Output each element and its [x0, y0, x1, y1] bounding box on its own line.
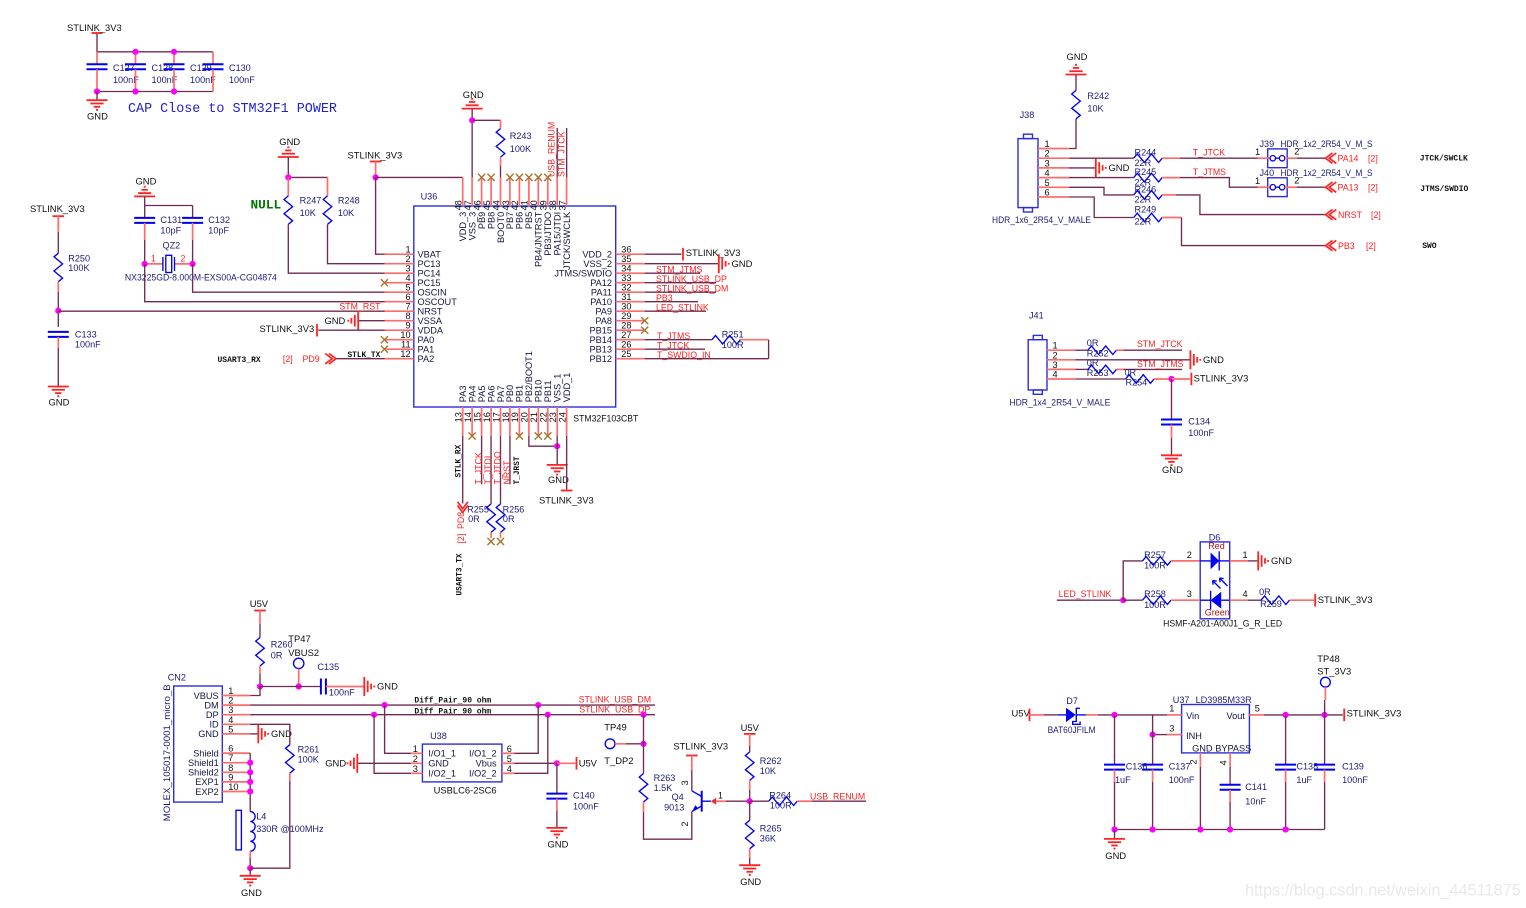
- svg-text:VSS_3: VSS_3: [467, 212, 477, 241]
- pin 38 PA15/JTDI: [548, 177, 563, 255]
- wire U38 pin5 Vbus to U5V: [514, 762, 557, 764]
- resistor R248 10K: [323, 177, 359, 224]
- svg-text:R253: R253: [1087, 368, 1109, 378]
- svg-text:VDD_1: VDD_1: [562, 373, 572, 403]
- pin 10 PA0: [385, 330, 434, 345]
- net LED_STLINK (pin30): [645, 302, 709, 312]
- svg-text:5: 5: [507, 754, 512, 764]
- svg-text:0R: 0R: [1259, 587, 1271, 597]
- svg-text:STLINK_3V3: STLINK_3V3: [686, 247, 741, 258]
- svg-text:PB2/BOOT1: PB2/BOOT1: [524, 351, 534, 402]
- svg-text:6: 6: [228, 744, 233, 754]
- net STLINK_USB_DM (pin32): [645, 283, 729, 293]
- svg-text:R245: R245: [1135, 167, 1157, 177]
- node pin20/pin23: [554, 443, 560, 449]
- wire DM to U38 pin6: [514, 705, 538, 753]
- svg-text:41: 41: [520, 200, 530, 210]
- svg-text:[2]: [2]: [1368, 182, 1378, 192]
- no-connect pin 40: [535, 174, 542, 181]
- pin 2 GND (bottom): [1189, 753, 1201, 830]
- svg-text:39: 39: [539, 200, 549, 210]
- svg-text:GND: GND: [136, 175, 157, 186]
- capacitor C137 100nF: [1142, 762, 1195, 830]
- wire STLINK_3V3 to cap bus: [96, 33, 98, 52]
- pin 3 I/O2_1: [411, 764, 456, 779]
- svg-text:C133: C133: [75, 330, 97, 340]
- svg-text:6: 6: [1045, 188, 1050, 198]
- ground (U36 VSSA pin8): [324, 311, 384, 330]
- svg-text:17: 17: [491, 412, 501, 422]
- svg-text:3: 3: [1187, 589, 1192, 599]
- svg-text:R259: R259: [1260, 599, 1282, 609]
- svg-text:J41: J41: [1029, 311, 1044, 321]
- svg-text:VDD_2: VDD_2: [582, 250, 612, 260]
- svg-text:GND: GND: [1203, 354, 1224, 365]
- wire DM to U38 pin1: [385, 705, 411, 753]
- svg-text:PA14: PA14: [1338, 153, 1359, 163]
- svg-text:9: 9: [228, 772, 233, 782]
- resistor R257 100R: [1143, 550, 1201, 571]
- ground (R265): [739, 865, 761, 887]
- wire regulator ground rail: [1115, 829, 1325, 831]
- LED D6 HSMF-A201 dual: [1200, 533, 1230, 619]
- node D7/C136: [1111, 712, 1117, 718]
- pin 39 PB3/JTDO: [539, 177, 554, 255]
- svg-text:10: 10: [400, 330, 410, 340]
- power flag STLINK_3V3 (cap bank): [30, 203, 85, 227]
- capacitor C140 100nF: [546, 763, 599, 828]
- pin 4 I/O2_2: [469, 764, 514, 779]
- svg-text:STLINK_3V3: STLINK_3V3: [1347, 707, 1402, 718]
- svg-text:GND: GND: [87, 111, 108, 122]
- svg-text:10pF: 10pF: [160, 225, 181, 235]
- svg-text:C134: C134: [1188, 416, 1210, 426]
- svg-text:1: 1: [228, 686, 233, 696]
- no-connect pin 39: [544, 174, 551, 181]
- svg-text:T_JTCK: T_JTCK: [473, 452, 483, 484]
- power flag STLINK_3V3 (U36 VDD_1 pin24): [539, 436, 594, 505]
- pin 2 PC13: [385, 254, 441, 269]
- svg-text:2: 2: [1053, 350, 1058, 360]
- svg-text:STLK_TX: STLK_TX: [348, 352, 381, 360]
- svg-text:4: 4: [1243, 589, 1248, 599]
- svg-text:9013: 9013: [664, 802, 684, 812]
- svg-text:DM: DM: [204, 700, 218, 710]
- resistor R254 0R: [1075, 367, 1171, 387]
- svg-text:100K: 100K: [510, 144, 531, 154]
- node crystal pin1: [142, 261, 148, 267]
- svg-text:STM_JTMS: STM_JTMS: [1137, 359, 1184, 369]
- svg-text:10nF: 10nF: [1245, 796, 1266, 806]
- svg-text:12: 12: [400, 349, 410, 359]
- svg-text:VBUS: VBUS: [194, 691, 219, 701]
- capacitor C135 100nF (horizontal): [317, 662, 363, 697]
- svg-text:PA11: PA11: [591, 288, 612, 298]
- test point TP47 VBUS2: [288, 633, 319, 687]
- pin 4 PC15: [385, 273, 441, 288]
- connector J39 HDR_1x2_2R54_V_M_S: [1255, 139, 1373, 168]
- svg-text:VBAT: VBAT: [418, 250, 442, 260]
- svg-text:32: 32: [621, 283, 631, 293]
- svg-text:R265: R265: [760, 824, 782, 834]
- wire DP to U38 pin3: [374, 715, 411, 774]
- net T_JTMS (pin27) + resistor R251 100R: [645, 329, 769, 350]
- svg-text:GND: GND: [279, 136, 300, 147]
- pin 20 PB2/BOOT1: [520, 351, 535, 436]
- svg-text:R243: R243: [510, 131, 532, 141]
- svg-text:PB3/JTDO: PB3/JTDO: [543, 212, 553, 256]
- svg-text:1: 1: [405, 245, 410, 255]
- svg-text:GND: GND: [1192, 743, 1213, 753]
- svg-text:[2]: [2]: [283, 354, 293, 364]
- svg-text:GND: GND: [49, 397, 70, 408]
- svg-text:25: 25: [621, 349, 631, 359]
- pin 6 OSCOUT: [385, 292, 457, 307]
- net STLINK_USB_DP (pin33): [645, 274, 727, 284]
- node Vbus/C140: [554, 760, 560, 766]
- svg-text:36: 36: [621, 245, 631, 255]
- svg-text:PC15: PC15: [418, 278, 441, 288]
- ground (U36 VSS_2 pin35): [645, 254, 753, 273]
- net label USB_RENUM (rotated): [547, 122, 558, 178]
- pin 18 PB0: [501, 385, 515, 436]
- capacitor C130: [203, 52, 256, 92]
- svg-text:OSCIN: OSCIN: [418, 288, 447, 298]
- svg-text:3: 3: [1053, 360, 1058, 370]
- node Vout/C138: [1283, 712, 1289, 718]
- svg-text:T_JTDO: T_JTDO: [492, 451, 502, 484]
- pin 9 EXP1: [195, 772, 250, 787]
- svg-text:27: 27: [621, 330, 631, 340]
- net NRST (pin18, rotated): [502, 436, 512, 485]
- pin 47 VSS_3: [463, 177, 478, 240]
- svg-text:0R: 0R: [503, 514, 515, 524]
- svg-text:Green: Green: [1205, 607, 1230, 617]
- svg-text:44: 44: [491, 200, 501, 210]
- pin 21 PB10: [529, 380, 544, 436]
- svg-text:Vin: Vin: [1186, 711, 1199, 721]
- svg-text:4: 4: [1053, 370, 1058, 380]
- crystal QZ2: [125, 240, 277, 282]
- svg-text:QZ2: QZ2: [163, 240, 181, 250]
- svg-text:LD3985M33R: LD3985M33R: [1196, 695, 1253, 705]
- svg-text:100nF: 100nF: [1342, 775, 1368, 785]
- resistor R244 22R + net T_JTCK: [1069, 147, 1258, 168]
- svg-text:1: 1: [1255, 176, 1260, 186]
- svg-text:PA10: PA10: [590, 297, 612, 307]
- svg-text:JTMS/SWDIO: JTMS/SWDIO: [1420, 185, 1468, 194]
- svg-text:7: 7: [228, 753, 233, 763]
- power flag STLINK_3V3 (R259): [1315, 594, 1372, 607]
- svg-text:TP47: TP47: [288, 633, 310, 644]
- connector J40 HDR_1x2_2R54_V_M_S: [1255, 168, 1373, 196]
- wire R243 to BOOT0 pin44: [500, 157, 502, 166]
- resistor R264 100R + net USB_RENUM: [750, 790, 866, 810]
- svg-text:1: 1: [1243, 550, 1248, 560]
- capacitor C134 100nF: [1161, 379, 1215, 455]
- red LED (pins 2-1): [1200, 551, 1230, 570]
- svg-text:PD8: PD8: [456, 512, 466, 529]
- node DP tap: [640, 712, 646, 718]
- svg-text:C140: C140: [573, 790, 595, 800]
- pin 15 PA5: [472, 386, 487, 436]
- pin 5 Vout: [1249, 704, 1342, 715]
- wire R247 to U36 pin3: [288, 224, 385, 273]
- svg-text:I/O2_1: I/O2_1: [428, 769, 456, 779]
- svg-text:10K: 10K: [300, 208, 316, 218]
- svg-text:LED_STLINK: LED_STLINK: [1059, 589, 1112, 599]
- svg-text:T_JTMS: T_JTMS: [1193, 167, 1226, 177]
- port PA14 [2]: [1297, 153, 1378, 163]
- connector J38 HDR_1x6_2R54_V_MALE: [992, 110, 1091, 225]
- wire DM line: [250, 704, 655, 706]
- no-connect pin 43: [506, 174, 513, 181]
- svg-text:2: 2: [1294, 147, 1299, 157]
- pin 1 I/O1_1: [411, 744, 456, 759]
- svg-text:R262: R262: [760, 756, 782, 766]
- svg-text:HDR_1x4_2R54_V_MALE: HDR_1x4_2R54_V_MALE: [1009, 397, 1110, 407]
- svg-text:0R: 0R: [271, 651, 283, 661]
- svg-text:VDDA: VDDA: [418, 326, 444, 336]
- svg-text:4: 4: [228, 715, 233, 725]
- svg-text:[2]: [2]: [456, 534, 466, 544]
- svg-text:NULL: NULL: [251, 198, 282, 213]
- svg-text:Vbus: Vbus: [476, 759, 497, 769]
- svg-text:PA8: PA8: [595, 316, 612, 326]
- svg-text:STLINK_3V3: STLINK_3V3: [1194, 373, 1249, 384]
- pin 5 GND: [198, 724, 250, 739]
- pin 3 J41: [1047, 360, 1075, 370]
- svg-text:C130: C130: [229, 63, 251, 73]
- pin 12 PA2: [385, 349, 434, 364]
- pin 3 INH: [1153, 723, 1182, 734]
- ground (C133): [48, 387, 70, 408]
- svg-text:22R: 22R: [1135, 217, 1152, 227]
- pin 4 J38: [1038, 168, 1069, 178]
- node STLINK_3V3 rail: [373, 174, 379, 180]
- svg-text:PA4: PA4: [467, 386, 477, 403]
- power flag U5V (Vbus): [557, 757, 598, 770]
- svg-text:2: 2: [1045, 149, 1050, 159]
- power flag STLINK_3V3 (R250 column): [57, 217, 59, 253]
- test point TP48 ST_3V3: [1317, 653, 1351, 715]
- port [2] PD8 (pin13, rotated): [456, 502, 468, 596]
- resistor R262 10K: [745, 752, 781, 801]
- svg-text:Shield1: Shield1: [188, 758, 219, 768]
- port PB3 [2]: [1326, 240, 1376, 250]
- no-connect pin 19: [516, 432, 523, 439]
- svg-text:GND: GND: [548, 839, 569, 850]
- node DP to pin3: [371, 712, 377, 718]
- svg-text:C135: C135: [317, 662, 339, 672]
- svg-text:CAP Close to STM32F1 POWER: CAP Close to STM32F1 POWER: [128, 102, 337, 117]
- svg-text:USBLC6-2SC6: USBLC6-2SC6: [434, 785, 497, 796]
- svg-text:PB3: PB3: [1338, 241, 1355, 251]
- pin 48 VDD_3: [454, 177, 469, 241]
- svg-text:T_JTCK: T_JTCK: [657, 340, 689, 350]
- wire pin20 PB0 to GND column: [529, 436, 557, 446]
- wire OSCIN (crystal pin2 to U36 pin5): [193, 264, 385, 292]
- svg-text:Diff_Pair_90 ohm: Diff_Pair_90 ohm: [414, 697, 491, 706]
- svg-text:4: 4: [1045, 168, 1050, 178]
- svg-text:D7: D7: [1066, 696, 1078, 706]
- svg-text:I/O2_2: I/O2_2: [469, 769, 497, 779]
- test point TP49: [604, 722, 643, 766]
- power flag U5V (regulator input): [1012, 707, 1058, 721]
- node DP to pin4: [545, 712, 551, 718]
- svg-text:PB0: PB0: [505, 385, 515, 402]
- net T_JTDO (pin17, rotated) + resistor R256 0R: [492, 436, 524, 545]
- pin 2 J41: [1047, 350, 1075, 360]
- svg-text:Q4: Q4: [672, 792, 684, 802]
- ground (C134): [1161, 455, 1183, 475]
- resistor R250 100K: [54, 253, 90, 282]
- power flag STLINK_3V3 (Vout): [1344, 707, 1401, 721]
- resistor R260 0R: [256, 638, 293, 687]
- svg-text:100nF: 100nF: [329, 687, 355, 697]
- svg-text:9: 9: [405, 321, 410, 331]
- wire GND node to R243: [472, 119, 500, 121]
- svg-text:47: 47: [463, 200, 473, 210]
- svg-text:R261: R261: [298, 745, 320, 755]
- wire pin13 PA3 down: [455, 436, 463, 504]
- svg-text:PB5: PB5: [524, 212, 534, 229]
- svg-text:https://blog.csdn.net/weixin_4: https://blog.csdn.net/weixin_44511875: [1245, 882, 1521, 900]
- svg-text:100R: 100R: [722, 340, 744, 350]
- power flag STLINK_3V3 (J41 pin4): [1172, 373, 1249, 386]
- svg-text:[2]: [2]: [1371, 210, 1381, 220]
- capacitor C138 1uF: [1275, 715, 1318, 830]
- capacitor C136 1uF: [1104, 715, 1147, 830]
- resistor R253 0R + net STM_JTMS: [1075, 358, 1183, 378]
- svg-text:GND: GND: [324, 315, 345, 326]
- svg-text:PB11: PB11: [543, 380, 553, 402]
- pin 5 J38: [1038, 178, 1069, 188]
- svg-text:HDR_1x6_2R54_V_MALE: HDR_1x6_2R54_V_MALE: [992, 215, 1091, 225]
- ground (U36 VSS_3): [462, 89, 484, 177]
- ground (L4): [240, 868, 262, 898]
- svg-text:PB14: PB14: [590, 335, 612, 345]
- svg-text:33: 33: [621, 273, 631, 283]
- svg-text:10pF: 10pF: [208, 225, 229, 235]
- no-connect pin 46: [478, 174, 485, 181]
- pin 3 PC14: [385, 264, 441, 279]
- svg-text:GND: GND: [732, 258, 753, 269]
- pin 8 VSSA: [385, 311, 443, 326]
- wire VBUS rail: [260, 686, 321, 688]
- svg-text:T_JTMS: T_JTMS: [657, 331, 690, 341]
- ground (U36 VSS_1 pin23): [547, 436, 569, 485]
- pin 30 PA9: [595, 302, 644, 317]
- svg-text:4: 4: [507, 764, 512, 774]
- pin 6 Shield: [193, 744, 250, 759]
- svg-text:R248: R248: [338, 195, 360, 205]
- svg-text:I/O1_2: I/O1_2: [469, 749, 497, 759]
- svg-text:U5V: U5V: [741, 722, 760, 733]
- svg-text:STM_RST: STM_RST: [339, 301, 381, 311]
- node R247 top: [285, 174, 291, 180]
- svg-text:R247: R247: [300, 195, 322, 205]
- wire rail to pin48: [376, 176, 463, 178]
- pin 32 PA11: [591, 283, 645, 298]
- wire cap bank bottom bus: [97, 91, 213, 93]
- svg-text:STLINK_USB_DM: STLINK_USB_DM: [656, 283, 728, 293]
- svg-text:STM_JTCK: STM_JTCK: [1137, 339, 1183, 349]
- svg-text:8: 8: [405, 311, 410, 321]
- pin 25 PB12: [590, 349, 645, 364]
- port USART3_RX [2] PD9 (pin12 STLK_TX): [218, 352, 385, 365]
- svg-text:100nF: 100nF: [1188, 428, 1214, 438]
- power flag STLINK_3V3 (U36 VBAT/VDD_3): [348, 149, 403, 177]
- pin 37 JTCK/SWCLK: [557, 177, 572, 270]
- svg-text:1: 1: [718, 791, 723, 801]
- svg-text:STLINK_3V3: STLINK_3V3: [1318, 594, 1373, 605]
- svg-text:100R: 100R: [1144, 561, 1166, 571]
- node TP49 tap: [640, 741, 646, 747]
- wire up to R257: [1123, 561, 1142, 600]
- svg-text:PA1: PA1: [418, 345, 435, 355]
- wire R247/R248 top bus: [288, 176, 327, 178]
- svg-text:VSS_2: VSS_2: [583, 259, 612, 269]
- no-connect pin 41: [525, 174, 532, 181]
- resistor R243 100K: [496, 120, 531, 157]
- svg-text:GND: GND: [1109, 162, 1130, 173]
- svg-text:100K: 100K: [298, 755, 319, 765]
- svg-text:J38: J38: [1020, 110, 1035, 120]
- net PB3 (pin31): [645, 293, 698, 303]
- svg-text:C141: C141: [1245, 782, 1267, 792]
- svg-text:CN2: CN2: [168, 672, 186, 682]
- svg-text:U36: U36: [421, 191, 438, 201]
- resistor R261 100K (ID pulldown): [250, 724, 319, 868]
- svg-text:3: 3: [405, 264, 410, 274]
- svg-text:PA9: PA9: [595, 307, 612, 317]
- svg-text:U5V: U5V: [1012, 707, 1031, 718]
- svg-text:PB7: PB7: [505, 212, 515, 229]
- svg-text:GND: GND: [428, 759, 449, 769]
- svg-text:R254: R254: [1126, 378, 1148, 388]
- pin 26 PB13: [590, 340, 645, 355]
- no-connect pin 14: [469, 432, 476, 439]
- svg-text:0R: 0R: [468, 514, 480, 524]
- svg-text:NRST: NRST: [1338, 210, 1363, 220]
- svg-text:HSMF-A201-A00J1_G_R_LED: HSMF-A201-A00J1_G_R_LED: [1163, 618, 1282, 629]
- pin 35 VSS_2: [583, 254, 644, 269]
- svg-text:GND: GND: [271, 728, 292, 739]
- no-connect pin 11: [381, 346, 388, 353]
- node TP47/rail: [296, 683, 302, 689]
- pin 7 Shield1: [188, 753, 250, 768]
- svg-text:R246: R246: [1135, 184, 1157, 194]
- wire R242 to J38 pin1: [1069, 119, 1076, 149]
- svg-text:U5V: U5V: [250, 598, 269, 609]
- svg-text:STM32F103CBT: STM32F103CBT: [573, 413, 638, 424]
- svg-text:PB12: PB12: [590, 354, 612, 364]
- pin 8 Shield2: [188, 763, 250, 778]
- svg-text:ST_3V3: ST_3V3: [1317, 665, 1351, 676]
- svg-text:22R: 22R: [1135, 195, 1152, 205]
- svg-text:JTCK/SWCLK: JTCK/SWCLK: [562, 211, 572, 270]
- svg-text:ID: ID: [210, 720, 220, 730]
- svg-text:PA12: PA12: [590, 278, 612, 288]
- svg-text:10K: 10K: [1087, 103, 1103, 113]
- svg-text:36K: 36K: [760, 833, 776, 843]
- svg-text:USB_RENUM: USB_RENUM: [810, 791, 865, 801]
- capacitor C132 10pF: [182, 206, 230, 241]
- svg-text:STM_JTCK: STM_JTCK: [556, 131, 566, 177]
- svg-text:2: 2: [181, 254, 186, 264]
- svg-text:22: 22: [539, 412, 549, 422]
